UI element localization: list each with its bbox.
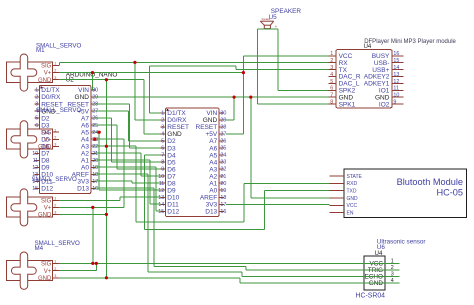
svg-text:15: 15: [158, 209, 164, 215]
svg-text:STATE: STATE: [347, 174, 363, 180]
HC-SR04 body: [364, 256, 385, 290]
U1 pin 19 stub: [219, 189, 224, 191]
wire U2 AREF to sensor ECHO: [95, 173, 149, 175]
wire U1 D4 to bluetooth TXD: [145, 154, 161, 156]
svg-text:D9: D9: [167, 187, 176, 194]
svg-text:15: 15: [32, 186, 38, 192]
U1 pin 20 stub: [219, 182, 224, 184]
wire TX to U1 D1/TX: [148, 66, 150, 113]
U2 pin 1 stub: [34, 89, 39, 91]
wire speaker to SPK1: [256, 29, 258, 104]
U1 pin 12 stub: [161, 189, 166, 191]
svg-text:SPK1: SPK1: [339, 101, 356, 108]
svg-text:1: 1: [54, 260, 56, 264]
svg-text:A1: A1: [81, 158, 89, 165]
svg-text:DFPlayer Mini MP3 Player modul: DFPlayer Mini MP3 Player module: [364, 39, 456, 45]
U1 pin 29 stub: [219, 119, 224, 121]
svg-text:A6: A6: [81, 122, 89, 129]
U1 pin 8 stub: [161, 161, 166, 163]
U4 pin 9 stub: [392, 103, 404, 105]
svg-text:7: 7: [161, 153, 164, 159]
svg-text:U4: U4: [364, 44, 372, 50]
U2 pin 14 stub: [34, 180, 39, 182]
svg-text:3: 3: [330, 65, 333, 71]
U4 pin 2 stub: [329, 62, 336, 64]
svg-text:13: 13: [158, 195, 164, 201]
svg-text:A7: A7: [209, 138, 217, 145]
svg-text:2: 2: [330, 58, 333, 64]
wire servo1 GND: [59, 79, 144, 81]
U2 pin 27 stub: [91, 110, 96, 112]
svg-text:11: 11: [33, 158, 39, 164]
wire servo3 GND to chain: [59, 213, 106, 215]
svg-text:2: 2: [54, 204, 56, 208]
U2 pin 22 stub: [91, 145, 96, 147]
U2 pin 21 stub: [91, 152, 96, 154]
U4 pin 1 stub: [329, 55, 336, 57]
servo pin V+: [53, 138, 60, 140]
svg-text:12: 12: [393, 79, 399, 85]
U1 pin 23 stub: [219, 161, 224, 163]
svg-text:1: 1: [54, 128, 56, 132]
servo M4 horn cross: [12, 252, 37, 289]
svg-text:GND: GND: [38, 78, 52, 84]
U4 pin 12 stub: [392, 82, 404, 84]
svg-text:1: 1: [330, 51, 333, 57]
svg-text:SIG: SIG: [41, 198, 52, 204]
svg-text:D11: D11: [167, 201, 179, 208]
svg-text:19: 19: [92, 165, 98, 171]
U2 pin 3 stub: [34, 103, 39, 105]
servo M4 pin SIG: [53, 263, 60, 265]
U2 pin 29 stub: [91, 96, 96, 98]
wire servo4 GND to sensor GND: [59, 277, 240, 279]
junction node (106.4,146.2): [105, 145, 108, 148]
junction node (243.4,72.6): [242, 71, 245, 74]
wire U2 RESET to U1 D3: [95, 103, 130, 105]
svg-text:SIG: SIG: [41, 262, 52, 268]
svg-text:14: 14: [158, 202, 164, 208]
wire servo4 V+: [59, 270, 96, 272]
U4 pin 4 stub: [329, 76, 336, 78]
svg-text:10: 10: [393, 93, 399, 99]
svg-text:5: 5: [161, 139, 164, 145]
wire U1 3V3 to bluetooth VCC: [226, 203, 329, 205]
U1 pin 6 stub: [161, 147, 166, 149]
wire V+ rail: [59, 72, 243, 74]
U2 pin 4 stub: [34, 110, 39, 112]
wire U2 D13 to sensor TRIG: [95, 187, 155, 189]
svg-text:2: 2: [35, 95, 38, 101]
U2 pin 25 stub: [91, 124, 96, 126]
svg-text:A5: A5: [209, 152, 217, 159]
svg-text:Blutooth Module: Blutooth Module: [397, 177, 463, 187]
svg-text:28: 28: [220, 125, 226, 131]
U1 pin 10 stub: [161, 175, 166, 177]
U4 pin 3 stub: [329, 69, 336, 71]
svg-text:HC-05: HC-05: [436, 188, 463, 198]
U2 pin 7 stub: [34, 131, 39, 133]
svg-text:14: 14: [393, 65, 399, 71]
svg-text:TXD: TXD: [347, 189, 357, 195]
svg-text:D1/TX: D1/TX: [41, 87, 60, 94]
svg-text:3V3: 3V3: [206, 201, 218, 208]
svg-text:D4: D4: [167, 152, 176, 159]
svg-text:Speaker: Speaker: [262, 18, 271, 21]
U1 pin 1 stub: [161, 112, 166, 114]
svg-text:D9: D9: [41, 165, 50, 172]
wire U2 A6 to U1 D6: [95, 124, 118, 126]
wire DFPlayer TX line: [149, 65, 236, 67]
svg-text:20: 20: [92, 158, 98, 164]
U1 pin 17 stub: [219, 203, 224, 205]
bluetooth pin VCC lead: [329, 204, 343, 206]
svg-text:5: 5: [35, 116, 38, 122]
svg-text:18: 18: [92, 172, 98, 178]
svg-text:11: 11: [159, 181, 165, 187]
svg-text:3V3: 3V3: [77, 179, 89, 186]
U2 pin 9 stub: [34, 145, 39, 147]
wire U2 A4 to servo3 V+: [95, 138, 124, 140]
servo M1 horn cross: [11, 54, 37, 91]
junction node (92.5,72.6): [91, 71, 94, 74]
svg-text:D7: D7: [167, 173, 176, 180]
svg-text:1: 1: [54, 62, 56, 66]
svg-text:6: 6: [35, 123, 38, 129]
U4 pin 5 stub: [329, 82, 336, 84]
U1 pin 28 stub: [219, 126, 224, 128]
U2 pin 8 stub: [34, 138, 39, 140]
wire servo3 V+ to servo4 SIG: [92, 207, 94, 263]
junction node (106.4,214.4): [105, 213, 108, 216]
servo pin V+: [53, 206, 60, 208]
U1 pin 16 stub: [219, 210, 224, 212]
wire servo3 V+: [59, 206, 124, 208]
svg-text:D1/TX: D1/TX: [167, 110, 186, 117]
junction node (94.9,139.2): [93, 138, 96, 141]
svg-text:VIN: VIN: [78, 87, 89, 94]
svg-text:D8: D8: [41, 158, 50, 165]
U1 pin 21 stub: [219, 175, 224, 177]
svg-text:SIG: SIG: [41, 130, 52, 136]
U4 pin 15 stub: [392, 62, 404, 64]
svg-text:D13: D13: [205, 209, 217, 216]
U1 pin 7 stub: [161, 154, 166, 156]
svg-text:4: 4: [161, 132, 164, 138]
junction node (106.4,277.8): [105, 276, 108, 279]
U2 pin 19 stub: [91, 166, 96, 168]
svg-text:25: 25: [92, 123, 98, 129]
wire servo3 SIG to U1 D10: [59, 199, 120, 201]
DFPlayer U4 body: [336, 50, 392, 108]
svg-text:28: 28: [92, 102, 98, 108]
svg-text:16: 16: [393, 51, 399, 57]
svg-text:D13: D13: [77, 186, 89, 193]
servo SMALL_SERVO body: [7, 197, 53, 217]
U1 pin 14 stub: [161, 203, 166, 205]
svg-text:D6: D6: [167, 166, 176, 173]
svg-text:22: 22: [220, 167, 226, 173]
svg-text:2: 2: [54, 267, 56, 271]
svg-text:8: 8: [330, 100, 333, 106]
junction node (106.4,79.7): [105, 78, 108, 81]
svg-text:24: 24: [220, 153, 226, 159]
svg-text:SMALL_SERVO: SMALL_SERVO: [36, 107, 81, 114]
U1 pin 15 stub: [161, 210, 166, 212]
svg-text:D2: D2: [167, 138, 176, 145]
svg-text:21: 21: [92, 151, 98, 157]
svg-text:A5: A5: [81, 129, 89, 136]
U1 pin 5 stub: [161, 140, 166, 142]
svg-text:1: 1: [35, 88, 38, 94]
junction node (250.8,97.1): [249, 96, 252, 99]
svg-text:4: 4: [330, 72, 333, 78]
svg-text:A3: A3: [209, 166, 217, 173]
U2 pin 30 stub: [91, 89, 96, 91]
wire U2 A0 to U1 D12: [95, 166, 157, 168]
svg-text:12: 12: [32, 165, 38, 171]
bluetooth pin EN lead: [329, 212, 343, 214]
wire GND to U1 GND: [143, 80, 145, 134]
svg-text:GND: GND: [38, 276, 52, 282]
svg-text:RESET: RESET: [167, 124, 189, 131]
U1 pin 2 stub: [161, 119, 166, 121]
servo pin SIG: [53, 131, 60, 133]
svg-text:D7: D7: [41, 150, 50, 157]
svg-text:V+: V+: [44, 137, 52, 143]
wire DFPlayer VCC vertical: [242, 56, 244, 134]
wire U2 3V3 to U1 D8: [95, 180, 132, 182]
svg-text:D2: D2: [41, 115, 50, 122]
svg-text:6: 6: [161, 146, 164, 152]
U4 pin 10 stub: [392, 96, 404, 98]
wire U2 A3 to bluetooth RXD: [95, 145, 137, 147]
bluetooth pin TXD lead: [329, 190, 343, 192]
U1 pin 22 stub: [219, 168, 224, 170]
svg-text:V+: V+: [44, 71, 52, 77]
svg-text:2: 2: [54, 135, 56, 139]
servo pin GND: [53, 214, 60, 216]
svg-text:GND: GND: [75, 94, 90, 101]
U2 pin 24 stub: [91, 131, 96, 133]
wire servo1 SIG jog: [58, 62, 60, 65]
svg-text:21: 21: [220, 174, 226, 180]
junction node (134.9,62.4): [133, 61, 136, 64]
wire branch to U1 D0/RX: [134, 62, 136, 120]
U1 pin 9 stub: [161, 168, 166, 170]
wire GND chain vertical: [105, 80, 107, 278]
U4 pin 11 stub: [392, 89, 404, 91]
svg-text:D12: D12: [41, 186, 53, 193]
U1 pin 13 stub: [161, 196, 166, 198]
svg-text:9: 9: [393, 100, 396, 106]
wire rail to U1 GND right: [233, 97, 235, 120]
U2 pin 17 stub: [91, 180, 96, 182]
svg-text:D10: D10: [167, 194, 179, 201]
U2 pin 20 stub: [91, 159, 96, 161]
svg-text:A1: A1: [209, 180, 217, 187]
svg-text:VIN: VIN: [206, 110, 217, 117]
U2 pin 16 stub: [91, 187, 96, 189]
junction node (92.8,207.4): [91, 206, 94, 209]
svg-text:30: 30: [220, 111, 226, 117]
svg-text:10: 10: [158, 174, 164, 180]
U1 pin 4 stub: [161, 133, 166, 135]
svg-text:A3: A3: [81, 143, 89, 150]
svg-text:12: 12: [158, 188, 164, 194]
U1 pin 3 stub: [161, 126, 166, 128]
U2 pin 2 stub: [34, 96, 39, 98]
U2 pin 15 stub: [34, 187, 39, 189]
wire to U1 +5V: [226, 133, 243, 135]
wire U2 +5V to U1 D2: [95, 110, 129, 112]
wire U2 A7 to U1 D5: [95, 117, 112, 119]
svg-text:2: 2: [54, 69, 56, 73]
svg-text:22: 22: [92, 144, 98, 150]
bluetooth pin RXD lead: [329, 182, 343, 184]
svg-text:30: 30: [92, 88, 98, 94]
wire U2 A1 to U1 D11: [95, 159, 151, 161]
svg-text:U4: U4: [375, 250, 383, 257]
svg-text:A2: A2: [81, 150, 89, 157]
svg-text:SIG: SIG: [41, 64, 52, 70]
svg-text:5: 5: [330, 79, 333, 85]
svg-text:D12: D12: [167, 209, 179, 216]
U2 pin 12 stub: [34, 166, 39, 168]
arduino nano U2 body: [39, 85, 90, 193]
bluetooth pin STATE lead: [329, 175, 343, 177]
svg-text:VCC: VCC: [347, 203, 358, 209]
U1 pin 26 stub: [219, 140, 224, 142]
svg-text:EN: EN: [347, 210, 354, 216]
U2 pin 28 stub: [91, 103, 96, 105]
wire servo1 SIG to DFPlayer RX: [59, 61, 328, 63]
svg-text:AREF: AREF: [200, 194, 217, 201]
svg-text:19: 19: [220, 188, 226, 194]
svg-text:20: 20: [220, 181, 226, 187]
svg-text:D8: D8: [167, 180, 176, 187]
svg-text:GND: GND: [203, 117, 218, 124]
wire rail to U2 VIN: [92, 73, 94, 91]
U1 pin 27 stub: [219, 133, 224, 135]
svg-text:3: 3: [54, 274, 56, 278]
U1 pin 30 stub: [219, 112, 224, 114]
svg-text:17: 17: [220, 202, 226, 208]
U1 pin 24 stub: [219, 154, 224, 156]
svg-text:D5: D5: [167, 159, 176, 166]
svg-text:18: 18: [220, 195, 226, 201]
U1 pin 18 stub: [219, 196, 224, 198]
servo M4 body: [7, 260, 53, 280]
wire U2 GND to DFPlayer GND: [95, 96, 329, 98]
svg-text:24: 24: [92, 130, 98, 136]
wire speaker to SPK2: [277, 29, 279, 91]
svg-text:HC-SR04: HC-SR04: [356, 293, 386, 300]
U2 pin 6 stub: [34, 124, 39, 126]
svg-text:A4: A4: [209, 159, 217, 166]
svg-text:11: 11: [393, 86, 399, 92]
servo M1 pin SIG: [53, 65, 60, 67]
servo pin GND: [53, 145, 60, 147]
svg-text:2: 2: [161, 118, 164, 124]
svg-text:3: 3: [161, 125, 164, 131]
svg-text:SMALL_SERVO: SMALL_SERVO: [32, 176, 77, 183]
svg-text:3: 3: [54, 143, 56, 147]
svg-text:A4: A4: [81, 136, 89, 143]
svg-text:29: 29: [220, 118, 226, 124]
svg-text:16: 16: [92, 186, 98, 192]
wire to DFPlayer VCC: [243, 55, 328, 57]
svg-text:V+: V+: [44, 206, 52, 212]
svg-text:GND: GND: [38, 145, 52, 151]
wire U2 A2 to U1 D7: [95, 152, 142, 154]
svg-text:M4: M4: [35, 245, 44, 252]
U1 pin 25 stub: [219, 147, 224, 149]
wire speaker base: [257, 28, 278, 30]
svg-text:10: 10: [32, 151, 38, 157]
servo horn cross: [11, 189, 37, 226]
svg-text:GND: GND: [369, 280, 384, 287]
U4 pin 8 stub: [329, 103, 336, 105]
svg-text:D3: D3: [41, 122, 50, 129]
servo horn cross: [11, 121, 37, 158]
svg-text:IO2: IO2: [379, 101, 390, 108]
U4 pin 6 stub: [329, 89, 336, 91]
svg-text:7: 7: [330, 93, 333, 99]
svg-text:26: 26: [220, 139, 226, 145]
svg-text:3: 3: [54, 211, 56, 215]
U2 pin 26 stub: [91, 117, 96, 119]
svg-text:D0/RX: D0/RX: [41, 94, 61, 101]
junction node (92.8,263.4): [91, 262, 94, 265]
svg-text:A0: A0: [209, 187, 217, 194]
svg-text:RXD: RXD: [347, 181, 358, 187]
servo M1 body: [7, 62, 53, 82]
servo M4 pin V+: [53, 270, 60, 272]
svg-text:A6: A6: [209, 145, 217, 152]
svg-text:17: 17: [92, 179, 98, 185]
junction node (99.2,132.2): [98, 131, 101, 134]
arduino nano U1 body: [166, 108, 220, 217]
servo pin SIG: [53, 199, 60, 201]
U1 pin 11 stub: [161, 182, 166, 184]
servo SMALL_SERVO body: [7, 129, 53, 149]
U2 pin 11 stub: [34, 159, 39, 161]
junction node (234.1,97.1): [233, 96, 236, 99]
U2 pin 13 stub: [34, 173, 39, 175]
svg-text:V+: V+: [44, 269, 52, 275]
svg-text:RESET: RESET: [196, 124, 218, 131]
U2 pin 5 stub: [34, 117, 39, 119]
svg-text:9: 9: [161, 167, 164, 173]
svg-text:GND: GND: [38, 213, 52, 219]
speaker U5 symbol: [260, 21, 273, 28]
svg-text:8: 8: [161, 160, 164, 166]
svg-text:M1: M1: [36, 47, 45, 54]
servo M1 pin V+: [53, 72, 60, 74]
U4 pin 14 stub: [392, 69, 404, 71]
svg-text:1: 1: [161, 111, 164, 117]
U4 pin 7 stub: [329, 96, 336, 98]
svg-text:D0/RX: D0/RX: [167, 117, 187, 124]
svg-text:A0: A0: [81, 165, 89, 172]
U4 pin 13 stub: [392, 76, 404, 78]
bluetooth module body: [344, 169, 467, 218]
svg-text:23: 23: [220, 160, 226, 166]
wire servo4 SIG to sensor VCC: [59, 262, 400, 264]
svg-text:A7: A7: [81, 115, 89, 122]
svg-text:15: 15: [393, 58, 399, 64]
